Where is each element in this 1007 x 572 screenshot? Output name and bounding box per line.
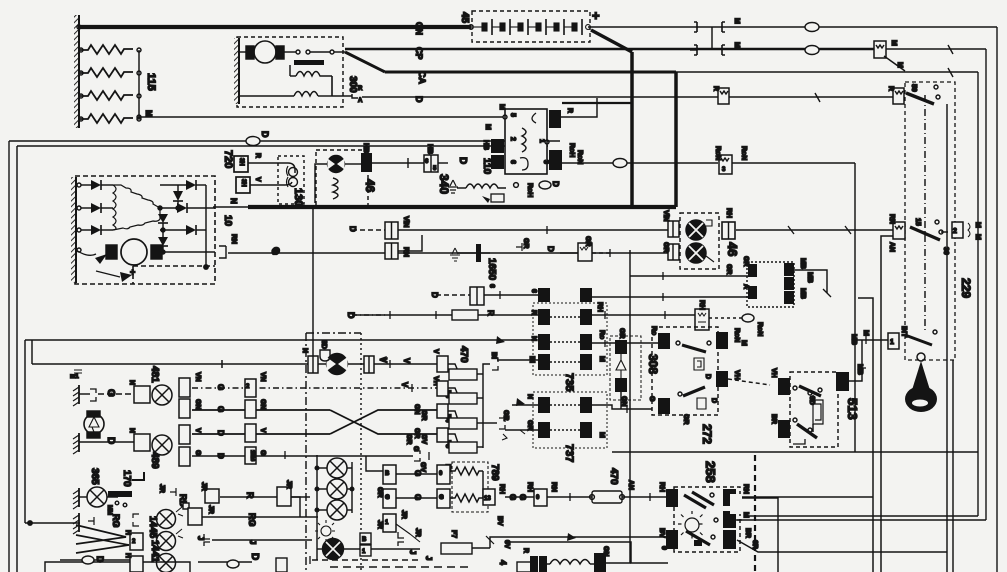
svg-text:2: 2 — [953, 228, 957, 235]
capacitor 1650 — [450, 248, 460, 261]
node oval bottom mid — [227, 560, 239, 568]
svg-text:m1: m1 — [70, 374, 79, 380]
indicator lamp in 46 — [328, 156, 345, 173]
svg-text:+: + — [130, 267, 135, 277]
wire RoN row — [562, 162, 718, 164]
svg-text:GN: GN — [413, 404, 420, 415]
svg-text:JR: JR — [200, 482, 207, 491]
wire battery thick diagonal — [591, 30, 632, 52]
svg-text:Ro: Ro — [650, 326, 657, 335]
svg-text:170: 170 — [121, 470, 132, 487]
wire left border vertical outer — [8, 141, 10, 572]
wire 115 common vertical — [138, 50, 140, 119]
oval on RoN wire — [613, 159, 627, 168]
mid column diode down a — [177, 185, 179, 191]
trio lamp 1 — [327, 458, 347, 478]
fuse F4 — [437, 381, 448, 396]
dashdot column frame fusebox — [305, 333, 307, 572]
wire battery plus to right — [588, 26, 997, 28]
wire CA diagonal from motor — [345, 52, 385, 72]
node oval bottom left — [82, 556, 94, 564]
resistor 115 r2 — [79, 68, 133, 77]
svg-text:1441: 1441 — [149, 540, 160, 563]
wire right vertical M — [985, 49, 987, 520]
connector 5M3 left pair — [491, 139, 504, 153]
svg-text:ViN: ViN — [662, 210, 669, 222]
svg-text:M: M — [484, 124, 491, 130]
mid connector boxes row1 — [245, 379, 256, 397]
diode row1 — [77, 183, 81, 187]
wire 737 out — [592, 405, 652, 409]
wire bottom dashed — [330, 566, 472, 568]
svg-text:D: D — [260, 131, 270, 138]
wire row 229 to lamps — [398, 229, 668, 231]
svg-text:GR: GR — [742, 256, 749, 267]
connector boxes lamps 46 left — [668, 221, 679, 237]
svg-text:GR: GR — [725, 264, 732, 275]
svg-text:N: N — [128, 380, 135, 385]
connector T5 bottom — [276, 558, 287, 572]
svg-text:BI: BI — [528, 356, 535, 363]
connector column 735 — [533, 303, 607, 375]
svg-text:H: H — [124, 553, 131, 558]
wire 258 BR diagonal out — [737, 540, 947, 552]
svg-text:6R: 6R — [751, 540, 758, 549]
svg-text:V: V — [194, 428, 201, 433]
horn 46 dashed box — [316, 150, 368, 206]
M wire right 258 — [736, 519, 742, 521]
svg-text:13: 13 — [484, 496, 491, 502]
fuse F5 — [437, 404, 448, 418]
connector boxes warning lamp — [308, 356, 318, 373]
svg-text:789: 789 — [489, 464, 500, 481]
svg-text:30: 30 — [942, 247, 949, 255]
wire 46 lamp L — [315, 164, 327, 203]
wire R row — [355, 314, 538, 316]
wire D bus right — [729, 96, 895, 98]
229 inner vertical dashdot — [924, 95, 926, 330]
fuel gauge sender — [87, 411, 100, 417]
brush arm lower — [76, 250, 96, 255]
svg-text:10: 10 — [222, 215, 233, 227]
wire lamp row 2 dashed — [192, 387, 438, 389]
connector boxes 481 out — [179, 378, 190, 397]
alternator ground wall — [71, 177, 76, 283]
flasher unit 110 body — [505, 109, 547, 174]
mid connector boxes row4 — [245, 447, 256, 464]
wire right vertical pair b — [881, 236, 893, 572]
svg-text:JR: JR — [285, 480, 292, 489]
svg-text:D: D — [216, 453, 225, 459]
connector INT box — [888, 333, 899, 349]
chevrons bottom left — [76, 525, 129, 553]
mid connector boxes row2 — [245, 400, 256, 418]
wire 308 bottom drop — [620, 392, 622, 409]
wire fuse out vertical — [482, 370, 484, 448]
svg-text:RH: RH — [725, 208, 732, 218]
motor M 300 — [246, 46, 254, 59]
panel lamp with rays — [321, 526, 331, 536]
battery 45 dashed box — [472, 11, 590, 42]
wire thick vertical CA to bus — [674, 72, 678, 207]
svg-text:R: R — [887, 86, 894, 91]
lamp 481 — [152, 385, 172, 405]
wire border D line outer — [9, 140, 560, 142]
svg-text:R: R — [522, 548, 529, 553]
lamp 489 ground — [78, 433, 80, 452]
svg-text:GV: GV — [419, 462, 426, 472]
svg-text:B: B — [385, 471, 390, 477]
J lamp boxes bottom — [360, 533, 371, 544]
wire bottom left J rows — [220, 496, 277, 498]
svg-text:GR: GR — [618, 328, 625, 339]
svg-text:D: D — [216, 430, 225, 436]
svg-text:G: G — [385, 495, 390, 501]
washer switch 513 dashed box — [790, 372, 838, 447]
lamp 481 ground — [78, 385, 80, 404]
wire right vertical to lower rectangle — [977, 72, 979, 452]
wire main positive bus top — [78, 25, 471, 29]
wire M flasher feed — [137, 115, 141, 119]
MB connector group dotted box — [747, 262, 794, 307]
diode top right — [160, 184, 186, 186]
wire G row upper left — [228, 252, 668, 254]
relay box D line — [718, 88, 729, 104]
wire lamp row 3 — [192, 409, 330, 411]
svg-text:365: 365 — [89, 468, 100, 485]
svg-text:RoH: RoH — [526, 183, 533, 197]
svg-text:RoH: RoH — [568, 143, 575, 157]
svg-text:6: 6 — [488, 284, 495, 288]
wire CP bus — [345, 48, 874, 51]
svg-text:RN: RN — [230, 234, 237, 244]
wire CP continues right — [884, 48, 986, 50]
229 INT blade — [905, 335, 932, 345]
svg-text:R: R — [486, 310, 495, 316]
svg-text:G: G — [259, 450, 266, 456]
svg-text:G: G — [412, 446, 419, 452]
svg-text:RN: RN — [888, 214, 895, 224]
svg-text:258: 258 — [703, 461, 718, 483]
svg-text:D: D — [704, 374, 711, 379]
wire RoN row right — [730, 162, 855, 164]
svg-text:J: J — [196, 536, 205, 540]
resistor 115 r1 — [79, 45, 133, 54]
svg-text:MB: MB — [806, 272, 813, 283]
wire row5 drop — [366, 456, 383, 471]
svg-text:737: 737 — [563, 444, 575, 462]
wire bottom left D rect — [45, 562, 190, 572]
connector column 737 — [533, 392, 607, 448]
svg-text:RH: RH — [526, 482, 533, 492]
svg-text:RN: RN — [742, 484, 749, 494]
repeater lamps 46 dashed box — [680, 213, 719, 269]
connector box 445 mid — [188, 508, 202, 525]
BV arrow — [567, 533, 576, 541]
svg-text:HB: HB — [482, 140, 489, 150]
tick y364 — [221, 360, 223, 368]
svg-text:ViN: ViN — [402, 216, 409, 228]
wire N row 737 — [512, 404, 538, 406]
svg-text:BR: BR — [770, 414, 777, 424]
svg-text:110: 110 — [481, 158, 492, 175]
mid column diode down c — [158, 237, 168, 246]
svg-text:6: 6 — [530, 289, 537, 293]
wire 513 MB riser — [849, 340, 862, 381]
ignition key — [917, 353, 925, 361]
connector R-A — [352, 86, 358, 98]
svg-text:R: R — [254, 153, 261, 158]
GR output — [483, 422, 497, 424]
resistor unit 789 — [452, 462, 488, 512]
wire main N bus thick — [248, 205, 676, 209]
wire lamp trio feed y497 — [505, 496, 668, 498]
svg-text:CA: CA — [417, 71, 427, 84]
connector N box 489 — [134, 434, 150, 451]
svg-text:D: D — [457, 157, 468, 164]
resistor bank 115 ground wall — [74, 15, 79, 128]
wiper switch 272 dashed box — [652, 327, 718, 415]
wire D from connector — [362, 96, 430, 98]
svg-text:489: 489 — [149, 452, 160, 469]
right vertical bus — [205, 185, 207, 267]
connector RoH box — [549, 150, 562, 170]
272 motor glyph upper — [694, 358, 704, 370]
svg-text:720: 720 — [222, 150, 234, 168]
svg-text:D: D — [710, 398, 717, 403]
trio lamp 3 — [327, 500, 347, 520]
diode unit 308 — [610, 336, 641, 400]
svg-text:M: M — [896, 62, 903, 68]
svg-text:G: G — [216, 384, 225, 390]
svg-text:513: 513 — [845, 398, 860, 420]
svg-text:G: G — [271, 247, 281, 254]
svg-text:RoN: RoN — [740, 146, 747, 160]
wire flasher R riser — [560, 98, 597, 117]
wire RoN vertical right — [854, 163, 856, 452]
connector N box 481 — [134, 386, 150, 403]
JR connector left — [277, 487, 291, 506]
rotor motor — [106, 245, 117, 259]
svg-text:CP: CP — [414, 47, 424, 60]
svg-text:GR: GR — [420, 410, 427, 421]
wire thick elbow to flasher — [562, 102, 632, 104]
svg-text:GR: GR — [413, 428, 420, 439]
wire bottom M y520 — [742, 519, 986, 521]
svg-text:G: G — [518, 494, 527, 500]
wire 258 RN out — [737, 496, 873, 498]
connector JR box 445 — [205, 489, 219, 503]
svg-text:308: 308 — [646, 354, 660, 374]
GR feeder boxes — [383, 465, 396, 484]
wire 229 right vertical down — [952, 360, 954, 572]
lamp trio vertical feed — [316, 455, 318, 560]
battery cells — [469, 19, 591, 35]
svg-text:G: G — [439, 495, 444, 501]
wire lamp row 5 — [192, 455, 413, 457]
svg-text:JR: JR — [158, 484, 165, 493]
wire right vertical pair a — [858, 298, 873, 572]
RG ground branch — [78, 513, 80, 532]
svg-text:3: 3 — [542, 160, 549, 164]
svg-text:D: D — [249, 553, 260, 560]
flasher coil — [522, 128, 526, 152]
connector box 46 right — [722, 222, 735, 239]
connector box R bottom — [517, 562, 531, 572]
svg-text:229: 229 — [959, 278, 973, 298]
fuse feed boxes — [437, 356, 448, 372]
svg-text:G: G — [194, 450, 201, 456]
lamp 489 — [152, 435, 172, 455]
svg-text:RH: RH — [596, 302, 603, 312]
connector GV bracket — [414, 451, 420, 461]
svg-text:D: D — [546, 246, 555, 252]
resistor 115 r4 — [79, 114, 133, 123]
svg-text:RN: RN — [550, 482, 557, 492]
connector oval top — [805, 23, 819, 32]
relay RH — [695, 309, 709, 330]
svg-text:JR: JR — [414, 528, 421, 537]
svg-text:MB: MB — [799, 288, 806, 299]
svg-text:J: J — [408, 550, 417, 554]
trio lamp 2 — [327, 479, 347, 499]
svg-text:D: D — [348, 226, 357, 232]
svg-text:50: 50 — [910, 84, 917, 92]
svg-text:M: M — [890, 40, 897, 46]
svg-text:15: 15 — [914, 218, 921, 226]
svg-text:V: V — [400, 382, 409, 388]
heater motor 300 dashed box — [237, 37, 343, 107]
svg-text:GR: GR — [584, 236, 591, 247]
diode row2 — [77, 206, 81, 210]
wire ticks y230 — [547, 226, 851, 257]
wire D bus — [430, 96, 718, 98]
svg-text:RoN: RoN — [733, 328, 740, 342]
svg-text:1: 1 — [538, 139, 545, 143]
wire GR row 737 — [505, 429, 538, 431]
svg-text:GR: GR — [662, 242, 669, 253]
fog lamp black — [323, 539, 344, 560]
wire 720 to 130 upper — [248, 163, 295, 173]
svg-text:G: G — [508, 494, 517, 500]
svg-text:AN: AN — [627, 480, 634, 490]
svg-text:1: 1 — [890, 339, 894, 346]
svg-text:G: G — [105, 389, 116, 397]
svg-text:3H: 3H — [238, 158, 244, 166]
svg-text:GR: GR — [526, 420, 533, 431]
272 motor glyph lower — [697, 398, 706, 409]
diode row3 — [77, 228, 81, 232]
svg-text:M: M — [974, 222, 981, 228]
svg-text:M: M — [742, 512, 749, 518]
wire RN drop bottom right — [742, 498, 778, 520]
wire fusebox feed vertical — [312, 209, 314, 356]
fuse F3 — [449, 369, 477, 380]
svg-text:8D: 8D — [808, 396, 815, 405]
resistor 115 r3 — [79, 91, 133, 100]
svg-text:INT: INT — [900, 326, 907, 338]
svg-text:V: V — [432, 349, 439, 354]
svg-text:GV: GV — [420, 434, 427, 444]
svg-text:272: 272 — [700, 424, 714, 444]
wire switch diagonal M — [884, 56, 905, 71]
node joints 115 — [79, 48, 83, 52]
svg-text:300: 300 — [347, 76, 358, 93]
svg-text:M: M — [974, 234, 981, 240]
ground wall 300 — [234, 38, 239, 104]
flasher contact hook — [520, 158, 528, 170]
connector 720 boxes — [234, 156, 248, 172]
BI output corner — [483, 364, 490, 370]
wire bottom rect y516 — [746, 515, 978, 517]
svg-text:AN: AN — [888, 242, 895, 252]
T junction ticks MB — [662, 272, 664, 301]
mid connector boxes row3 — [245, 424, 256, 442]
svg-text:RG: RG — [247, 513, 257, 527]
svg-text:46: 46 — [363, 179, 377, 193]
svg-text:JR: JR — [207, 505, 214, 514]
svg-text:M: M — [733, 18, 740, 24]
svg-text:M: M — [598, 356, 605, 362]
wire 6V row — [505, 542, 668, 563]
wire MB feed upper — [630, 275, 748, 277]
JR connector box mid — [383, 514, 396, 532]
svg-text:VN: VN — [194, 372, 201, 382]
RoH pigtail — [514, 183, 519, 188]
svg-text:J: J — [424, 556, 433, 560]
svg-text:8D: 8D — [320, 340, 327, 349]
svg-text:1650: 1650 — [486, 258, 497, 281]
wire left frame inner vertical — [24, 340, 26, 523]
transformer bottom — [530, 556, 538, 572]
svg-text:GN: GN — [602, 546, 609, 557]
svg-text:RG: RG — [111, 514, 121, 528]
svg-text:115: 115 — [145, 73, 157, 91]
wire CA bus thin right — [676, 71, 905, 73]
svg-text:4: 4 — [498, 560, 508, 565]
wire 308 to 272 — [627, 342, 658, 344]
svg-text:M: M — [862, 330, 869, 336]
wire R row mid — [592, 314, 695, 316]
229 contact 50 blade — [906, 93, 934, 104]
ignition switch 229 dashed box — [905, 82, 955, 360]
svg-text:+: + — [592, 8, 600, 23]
fuse F6 — [437, 428, 448, 442]
wire N long row — [25, 339, 535, 341]
wire long vertical center — [629, 250, 631, 563]
tick marks top right — [815, 45, 953, 102]
svg-text:VH: VH — [770, 368, 777, 378]
choke coil 300 lower — [294, 92, 318, 97]
svg-text:5: 5 — [509, 113, 516, 117]
wire right frame vertical from plus — [996, 27, 998, 572]
coil 130 — [289, 168, 298, 177]
connector M box after 30 — [952, 222, 963, 238]
fuse F7 — [441, 543, 472, 554]
svg-text:RN: RN — [402, 247, 409, 257]
diode row3 right — [160, 229, 186, 231]
svg-text:V: V — [402, 358, 411, 364]
svg-text:BV: BV — [496, 516, 503, 526]
wire GR to 308 — [592, 342, 615, 344]
node D oval on border — [246, 137, 260, 146]
arrow on N row — [496, 336, 505, 344]
svg-text:HB: HB — [426, 144, 433, 154]
svg-text:RH: RH — [498, 484, 505, 494]
wire CA right segment — [905, 71, 978, 73]
svg-text:GR: GR — [682, 414, 689, 425]
resistor bar 300 — [294, 60, 324, 65]
